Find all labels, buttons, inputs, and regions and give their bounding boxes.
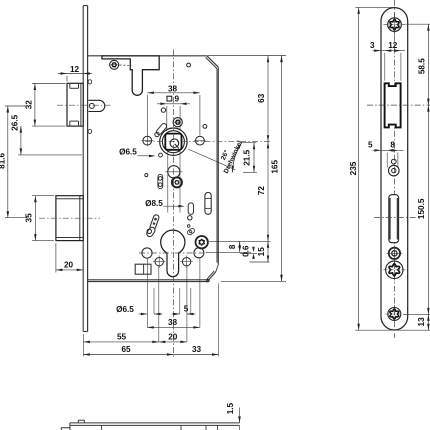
latch cutout [385,83,401,127]
dim 5 bottom right [172,305,196,316]
auxiliary slide piece (T-shape) [102,56,159,95]
lock stump [135,264,151,274]
svg-text:5: 5 [368,141,373,150]
hole A [161,108,165,112]
faceplate centerline [393,0,395,338]
svg-text:38: 38 [168,318,178,327]
slot upper left of follower [155,122,168,136]
deadbolt cutout [389,195,399,243]
dim 81.6 [0,106,27,218]
deadbolt guide slot [205,192,211,214]
case hole 6.5 left [142,135,154,147]
screw above follower [173,118,182,127]
cylinder screw hole left [153,256,165,268]
dim 32 latch height [24,84,65,127]
svg-text:72: 72 [257,186,266,196]
mounting hole right [194,248,204,258]
latch bolt (Falle) [67,83,83,126]
latch centerline [57,104,112,106]
small hole 5 [391,159,396,164]
mini slot with pin [187,225,196,236]
svg-text:26.5: 26.5 [10,114,19,130]
svg-text:12: 12 [70,65,80,74]
dim 58.5 [406,24,430,105]
svg-text:150.5: 150.5 [417,198,426,219]
latch cutout centerline [367,104,430,106]
dim 1.5 [226,402,241,430]
dim 20 bottom [159,333,187,344]
dim 0.6 [240,245,257,259]
extension lines to bottom dims [83,258,218,356]
label diameter 6.5 mid [119,148,155,158]
bottom view latch [61,425,70,430]
case hole 6.5 right [194,136,206,145]
svg-text:235: 235 [349,161,358,175]
dim 72 [257,142,269,242]
svg-text:63: 63 [257,93,266,103]
tiny hole [159,153,163,157]
svg-text:9: 9 [175,95,180,104]
cylinder screw hole right [180,256,192,268]
svg-text:0.6: 0.6 [242,245,251,257]
svg-text:5: 5 [184,305,189,314]
svg-text:13: 13 [417,317,426,327]
dim 3 and 12 plate [370,41,405,81]
bottom view faceplate edge [70,423,240,426]
dim 8 right [206,241,271,252]
extension line case top [208,55,287,57]
svg-text:165: 165 [271,160,280,174]
faceplate side view (Stulp) [83,6,87,332]
svg-text:Ø8.5: Ø8.5 [145,199,163,208]
svg-text:32: 32 [24,100,33,110]
svg-text:12: 12 [388,41,398,50]
dim 65 [83,345,173,356]
screw hole 8 [389,165,400,176]
small hole left [145,174,148,177]
dim 20 deadbolt throw [56,243,83,273]
bottom view case lines [102,425,218,430]
dim 38 top [147,84,200,135]
dim 235 [349,7,430,330]
mounting hole left [142,248,152,258]
svg-text:33: 33 [192,345,202,354]
svg-text:8: 8 [390,141,395,150]
dim 5 bottom left [139,313,163,315]
label 26 Drehwinkel [214,136,244,175]
svg-text:38: 38 [168,84,178,93]
svg-text:1.5: 1.5 [226,402,235,414]
top countersunk torx screw [384,14,406,36]
label diameter 8.5 [145,199,185,208]
torx screw mid [384,259,406,281]
screw hole bold [387,245,403,261]
svg-text:35: 35 [25,213,34,223]
dim 9 square [157,95,190,131]
latch tail [89,100,105,111]
svg-text:8: 8 [228,244,237,249]
lock case outline [88,56,219,282]
svg-text:58.5: 58.5 [417,58,426,74]
change lever (Wechsel) [146,214,160,238]
svg-text:55: 55 [117,333,127,342]
faceplate tab lower [88,129,92,133]
central guide slot [188,203,194,220]
svg-text:Ø6.5: Ø6.5 [116,305,134,314]
euro profile cylinder hole [161,230,185,277]
dim 33 [173,345,218,356]
screw on slide piece [110,60,132,69]
dim 165 [221,56,286,281]
hole top right [187,63,191,67]
svg-text:Ø6.5: Ø6.5 [119,148,137,157]
svg-text:20: 20 [168,333,178,342]
dim 15 right [250,241,270,262]
dim 26.5 [10,114,82,155]
angle arc 26 deg [188,143,242,173]
faceplate front outline [381,8,408,330]
dim 12 latch width [58,65,92,82]
follower nut with 9mm square [160,128,187,155]
deadbolt (Riegel) [56,196,83,241]
hole 8.5 [166,151,183,213]
deadbolt centerline [39,217,100,219]
dim 38 bottom [147,318,200,329]
slot with pins [158,174,163,188]
svg-text:15: 15 [257,247,266,257]
faceplate tab upper [88,80,92,84]
hole B [203,125,207,129]
dim 63 [257,56,269,142]
vertical centerline [173,50,175,358]
dim 150.5 [417,105,429,314]
torx screw bottom [385,305,403,323]
follower centerline [145,141,270,143]
dim 13 [403,314,430,330]
dim 35 deadbolt height [25,196,54,241]
bottom view tab [78,420,84,423]
svg-text:65: 65 [121,345,131,354]
deadbolt cutout centerline [374,217,420,219]
screw below follower [172,177,182,187]
svg-text:81.6: 81.6 [0,152,6,168]
svg-text:3: 3 [370,41,375,50]
svg-text:21.5: 21.5 [243,149,252,165]
svg-text:20: 20 [64,261,74,270]
dim 55 [83,333,158,344]
label diameter 6.5 bottom [116,305,134,314]
dim 5 and 8 plate [368,141,403,168]
dim 21.5 [242,143,257,173]
torx screw lower right [196,236,208,248]
mounting holes centerline [139,252,207,254]
